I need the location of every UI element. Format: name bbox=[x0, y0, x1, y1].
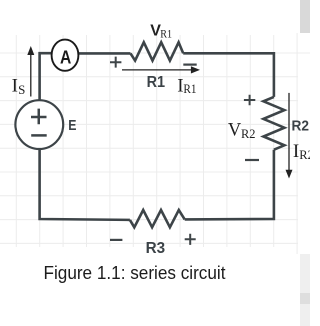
svg-text:S: S bbox=[18, 82, 25, 97]
scrollbar track bottom-right bbox=[300, 254, 310, 326]
IR2 current arrow bbox=[288, 93, 290, 171]
source E circle bbox=[15, 100, 63, 149]
svg-text:R3: R3 bbox=[146, 240, 166, 257]
wire: E top to top-left corner to ammeter bbox=[40, 53, 52, 102]
source plus sign bbox=[31, 109, 47, 125]
resistor R1 bbox=[131, 42, 184, 60]
resistor R2 bbox=[263, 97, 284, 150]
svg-text:I: I bbox=[293, 141, 299, 162]
wire: ammeter to R1 bbox=[78, 52, 130, 55]
svg-text:R2: R2 bbox=[241, 127, 256, 141]
IR1 current arrow bbox=[122, 69, 192, 71]
svg-text:R1: R1 bbox=[183, 82, 196, 96]
svg-text:Figure 1.1: series circuit: Figure 1.1: series circuit bbox=[44, 263, 226, 283]
wire: R2 to bottom-right corner to R3 bbox=[185, 150, 274, 220]
svg-text:A: A bbox=[60, 48, 71, 68]
resistor R3 bbox=[130, 210, 185, 227]
plus sign above R2 bbox=[244, 95, 255, 106]
svg-text:I: I bbox=[12, 76, 18, 97]
svg-text:R1: R1 bbox=[160, 26, 172, 40]
Is current arrow bbox=[30, 55, 32, 97]
ammeter circle bbox=[52, 40, 79, 71]
svg-text:E: E bbox=[68, 117, 76, 134]
wire: R3 to bottom-left corner up to E bottom bbox=[40, 148, 130, 220]
minus sign right of R1 bbox=[183, 63, 196, 65]
plus sign right of R3 bbox=[185, 234, 196, 245]
scrollbar darker block bottom-right bbox=[300, 293, 310, 304]
plus sign left of R1 bbox=[110, 57, 121, 68]
wire: R1 to top-right corner down to R2 bbox=[183, 53, 274, 97]
svg-text:R2: R2 bbox=[299, 148, 310, 162]
svg-text:R1: R1 bbox=[147, 74, 166, 91]
scrollbar thumb top-right bbox=[300, 0, 310, 33]
minus sign below R2 bbox=[245, 159, 259, 161]
minus sign left of R3 bbox=[110, 239, 122, 241]
svg-text:R2: R2 bbox=[292, 118, 310, 135]
svg-text:V: V bbox=[228, 120, 242, 140]
source minus sign bbox=[31, 134, 47, 137]
